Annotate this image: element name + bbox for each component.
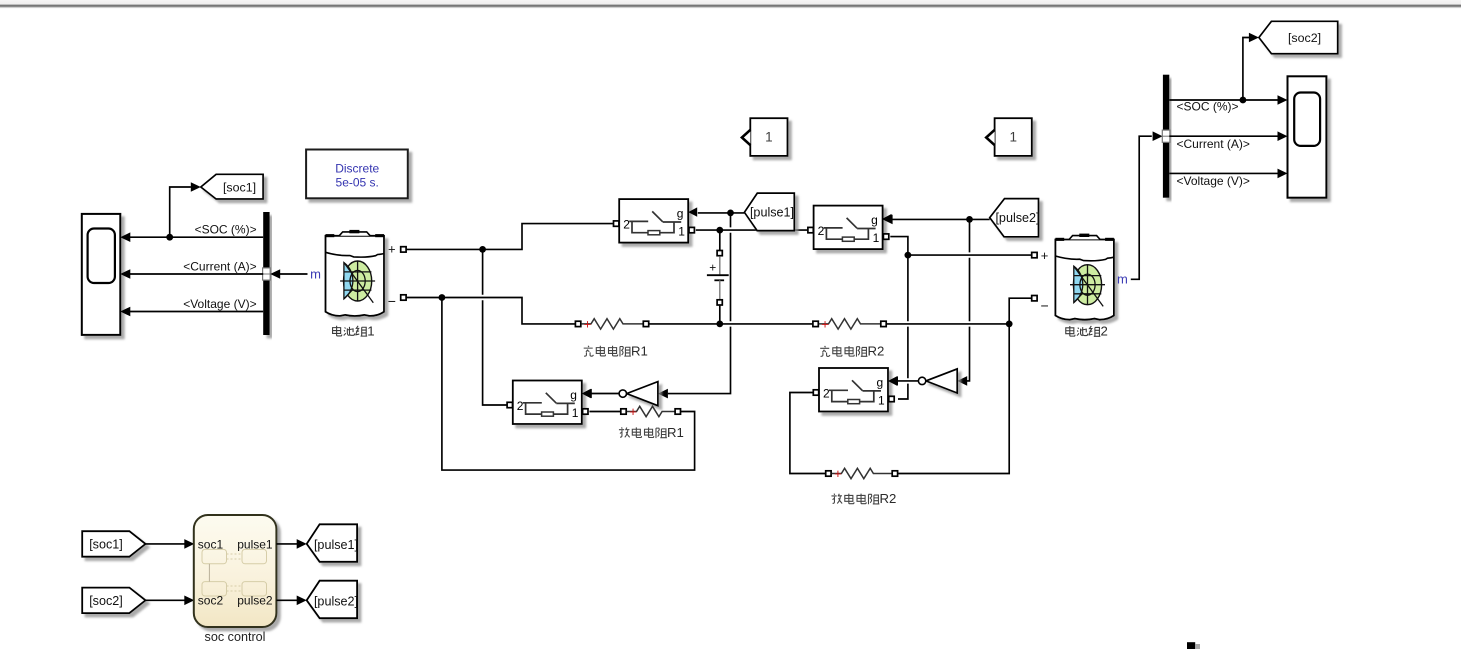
svg-text:<Current (A)>: <Current (A)> — [1177, 137, 1250, 151]
top toolbar strip — [0, 0, 1461, 5]
goto tag pulse1 (bottom) — [307, 524, 358, 562]
resistor 充电电阻R1 — [575, 316, 648, 331]
arrow into M2 gate — [883, 215, 893, 225]
wire pulse1 down to NOT1 input — [668, 213, 731, 394]
capacitor C1 — [707, 251, 729, 324]
svg-text:+: + — [629, 404, 637, 419]
wire mux1 Voltage to scope1 — [120, 307, 263, 317]
arrow into goto pulse1 — [297, 539, 307, 549]
constant block 1 (left) — [742, 118, 788, 156]
switch block M1d — [507, 381, 591, 425]
arrow into mux2 — [1153, 131, 1163, 141]
wire - junction down and around to discharge resistor R1 — [442, 298, 695, 471]
arrow into subsystem soc2 — [184, 596, 194, 606]
wire soc1 to subsystem — [146, 543, 185, 545]
node junction on - wire — [439, 294, 446, 301]
svg-text:[pulse2]: [pulse2] — [995, 211, 1039, 225]
node junction capacitor bottom on bus — [716, 321, 723, 328]
wire battery2 m up to mux2 — [1131, 136, 1152, 279]
arrow into goto soc2 — [1249, 33, 1259, 43]
wire junction down to M2d output — [898, 255, 908, 399]
switch block M2d — [813, 368, 897, 412]
wire mux1 Current to scope1 — [120, 269, 263, 279]
battery block 电池组1 — [326, 230, 385, 316]
wire junction up to goto soc2 — [1243, 38, 1249, 101]
constant block 1 (right) — [986, 118, 1032, 156]
svg-text:[pulse1]: [pulse1] — [314, 538, 358, 552]
node junction on + wire battery2 — [905, 252, 912, 259]
svg-text:<Voltage (V)>: <Voltage (V)> — [183, 297, 256, 311]
svg-text:soc control: soc control — [205, 630, 266, 644]
wire subsystem pulse2 out — [276, 599, 297, 601]
node junction on + wire — [479, 246, 486, 253]
wire pulse2 down to NOT2 input — [967, 219, 970, 381]
from tag soc1 (bottom) — [82, 531, 145, 557]
arrow into M1d gate — [582, 389, 592, 399]
svg-text:[pulse1]: [pulse1] — [750, 206, 794, 220]
resistor 充电电阻R2 — [813, 316, 886, 331]
label 放电电阻R2 — [831, 494, 879, 505]
from tag pulse2 — [990, 199, 1040, 237]
wire + junction down to discharge switch M1d — [483, 249, 507, 405]
svg-text:1: 1 — [1009, 130, 1017, 145]
svg-text:Discrete: Discrete — [335, 161, 379, 175]
wire R2d to bus junction — [898, 324, 1009, 474]
svg-text:+: + — [834, 466, 842, 481]
svg-text:1: 1 — [367, 323, 374, 338]
svg-text:2: 2 — [1101, 324, 1108, 339]
wire M1 out to M2 in — [696, 229, 808, 231]
wire soc2 to subsystem — [146, 599, 185, 601]
svg-text:1: 1 — [765, 130, 773, 145]
label 电池组2 — [1066, 326, 1101, 336]
resistor 放电电阻R1 — [621, 404, 681, 419]
svg-text:pulse2: pulse2 — [237, 594, 273, 608]
from tag soc2 (bottom) — [82, 588, 145, 614]
switch block M2 — [808, 206, 892, 250]
svg-text:[soc2]: [soc2] — [1288, 31, 1321, 45]
bus selector Mux1 — [263, 212, 271, 335]
subsystem soc control — [194, 515, 277, 627]
svg-text:5e-05 s.: 5e-05 s. — [336, 175, 379, 189]
arrow into NOT1 input — [658, 389, 668, 399]
arrow into goto soc1 — [191, 182, 201, 192]
wire junction down to capacitor — [719, 230, 721, 250]
svg-text:soc1: soc1 — [198, 537, 224, 551]
scope Scope1 — [82, 214, 121, 335]
sample time block Discrete — [306, 150, 408, 199]
bus selector Mux2 — [1162, 75, 1170, 198]
battery block 电池组2 — [1055, 234, 1114, 320]
svg-text:+: + — [709, 260, 716, 274]
svg-text:m: m — [1117, 271, 1128, 286]
wire mux2 SOC to scope2 — [1169, 95, 1287, 105]
wire subsystem pulse1 out — [276, 543, 297, 545]
svg-text:R1: R1 — [667, 425, 684, 440]
svg-text:[pulse2]: [pulse2] — [314, 595, 358, 609]
wire mux1 SOC to scope1 — [120, 232, 263, 242]
wire M1d out to discharge resistor R1d — [589, 411, 620, 413]
from tag pulse1 — [744, 193, 794, 231]
goto tag pulse2 (bottom) — [307, 581, 358, 619]
wire bus R2 to battery2 - junction — [887, 323, 1009, 325]
svg-text:<Voltage (V)>: <Voltage (V)> — [1177, 174, 1250, 188]
resistor 放电电阻R2 — [826, 466, 898, 481]
node junction capacitor top — [716, 227, 723, 234]
svg-text:+: + — [821, 316, 829, 331]
arrow into NOT2 input — [957, 376, 967, 386]
svg-text:pulse1: pulse1 — [237, 537, 273, 551]
switch block M1 — [614, 199, 698, 243]
node junction on gate wire — [727, 210, 734, 217]
svg-text:+: + — [388, 241, 396, 256]
node junction bus to battery2 - — [1006, 321, 1013, 328]
svg-text:−: − — [388, 293, 396, 309]
arrow into subsystem soc1 — [184, 539, 194, 549]
svg-text:R2: R2 — [880, 491, 897, 506]
svg-text:−: − — [1041, 298, 1049, 314]
goto tag soc2 — [1259, 21, 1338, 53]
wire mux2 Current to scope2 — [1169, 131, 1287, 141]
svg-text:soc2: soc2 — [198, 594, 224, 608]
svg-text:R1: R1 — [631, 343, 648, 358]
svg-text:[soc1]: [soc1] — [89, 537, 123, 551]
scope Scope2 — [1288, 76, 1327, 197]
wire junction up to battery2 - — [1009, 298, 1031, 324]
wire battery1 + to switch M1 input — [407, 224, 613, 250]
logic NOT1 — [619, 382, 658, 406]
svg-text:<SOC (%)>: <SOC (%)> — [1177, 100, 1239, 114]
wire bus R1 to R2 — [649, 323, 812, 325]
wire NOT1 out to M1d gate — [591, 393, 619, 395]
wire M2d input from left loop — [790, 393, 825, 474]
svg-text:[soc2]: [soc2] — [89, 594, 123, 608]
svg-text:<SOC (%)>: <SOC (%)> — [195, 223, 257, 237]
svg-text:R2: R2 — [868, 344, 885, 359]
svg-text:+: + — [584, 316, 592, 331]
goto tag soc1 — [201, 174, 263, 199]
node junction on SOC2 wire — [1240, 97, 1247, 104]
logic NOT2 — [918, 369, 957, 393]
svg-text:+: + — [1041, 248, 1049, 263]
label 放电电阻R1 — [619, 427, 667, 438]
label 充电电阻R2 — [820, 346, 867, 357]
svg-text:<Current (A)>: <Current (A)> — [183, 259, 256, 273]
wire junction to goto soc1 — [170, 187, 191, 237]
wire from pulse1 tag to M1 gate — [698, 212, 745, 214]
arrow into goto pulse2 — [297, 596, 307, 606]
wire battery1 - to charge resistor R1 — [407, 298, 575, 324]
wire NOT2 out to M2d gate — [897, 380, 918, 382]
label 电池组1 — [333, 326, 368, 336]
svg-text:[soc1]: [soc1] — [223, 180, 256, 194]
label 充电电阻R1 — [584, 346, 631, 357]
toolbar bottom edge line — [0, 5, 1461, 7]
wire battery1 m to mux1 — [270, 269, 307, 279]
wire mux2 Voltage to scope2 — [1169, 169, 1287, 179]
wire M2 out to battery2 + — [890, 237, 1031, 256]
wire from pulse2 tag to M2 gate — [892, 218, 990, 220]
node junction on SOC wire — [166, 234, 173, 241]
partially visible block at bottom — [1187, 642, 1200, 649]
node junction on gate2 wire — [966, 216, 973, 223]
svg-text:m: m — [310, 266, 321, 281]
arrow into M2d gate — [888, 376, 898, 386]
